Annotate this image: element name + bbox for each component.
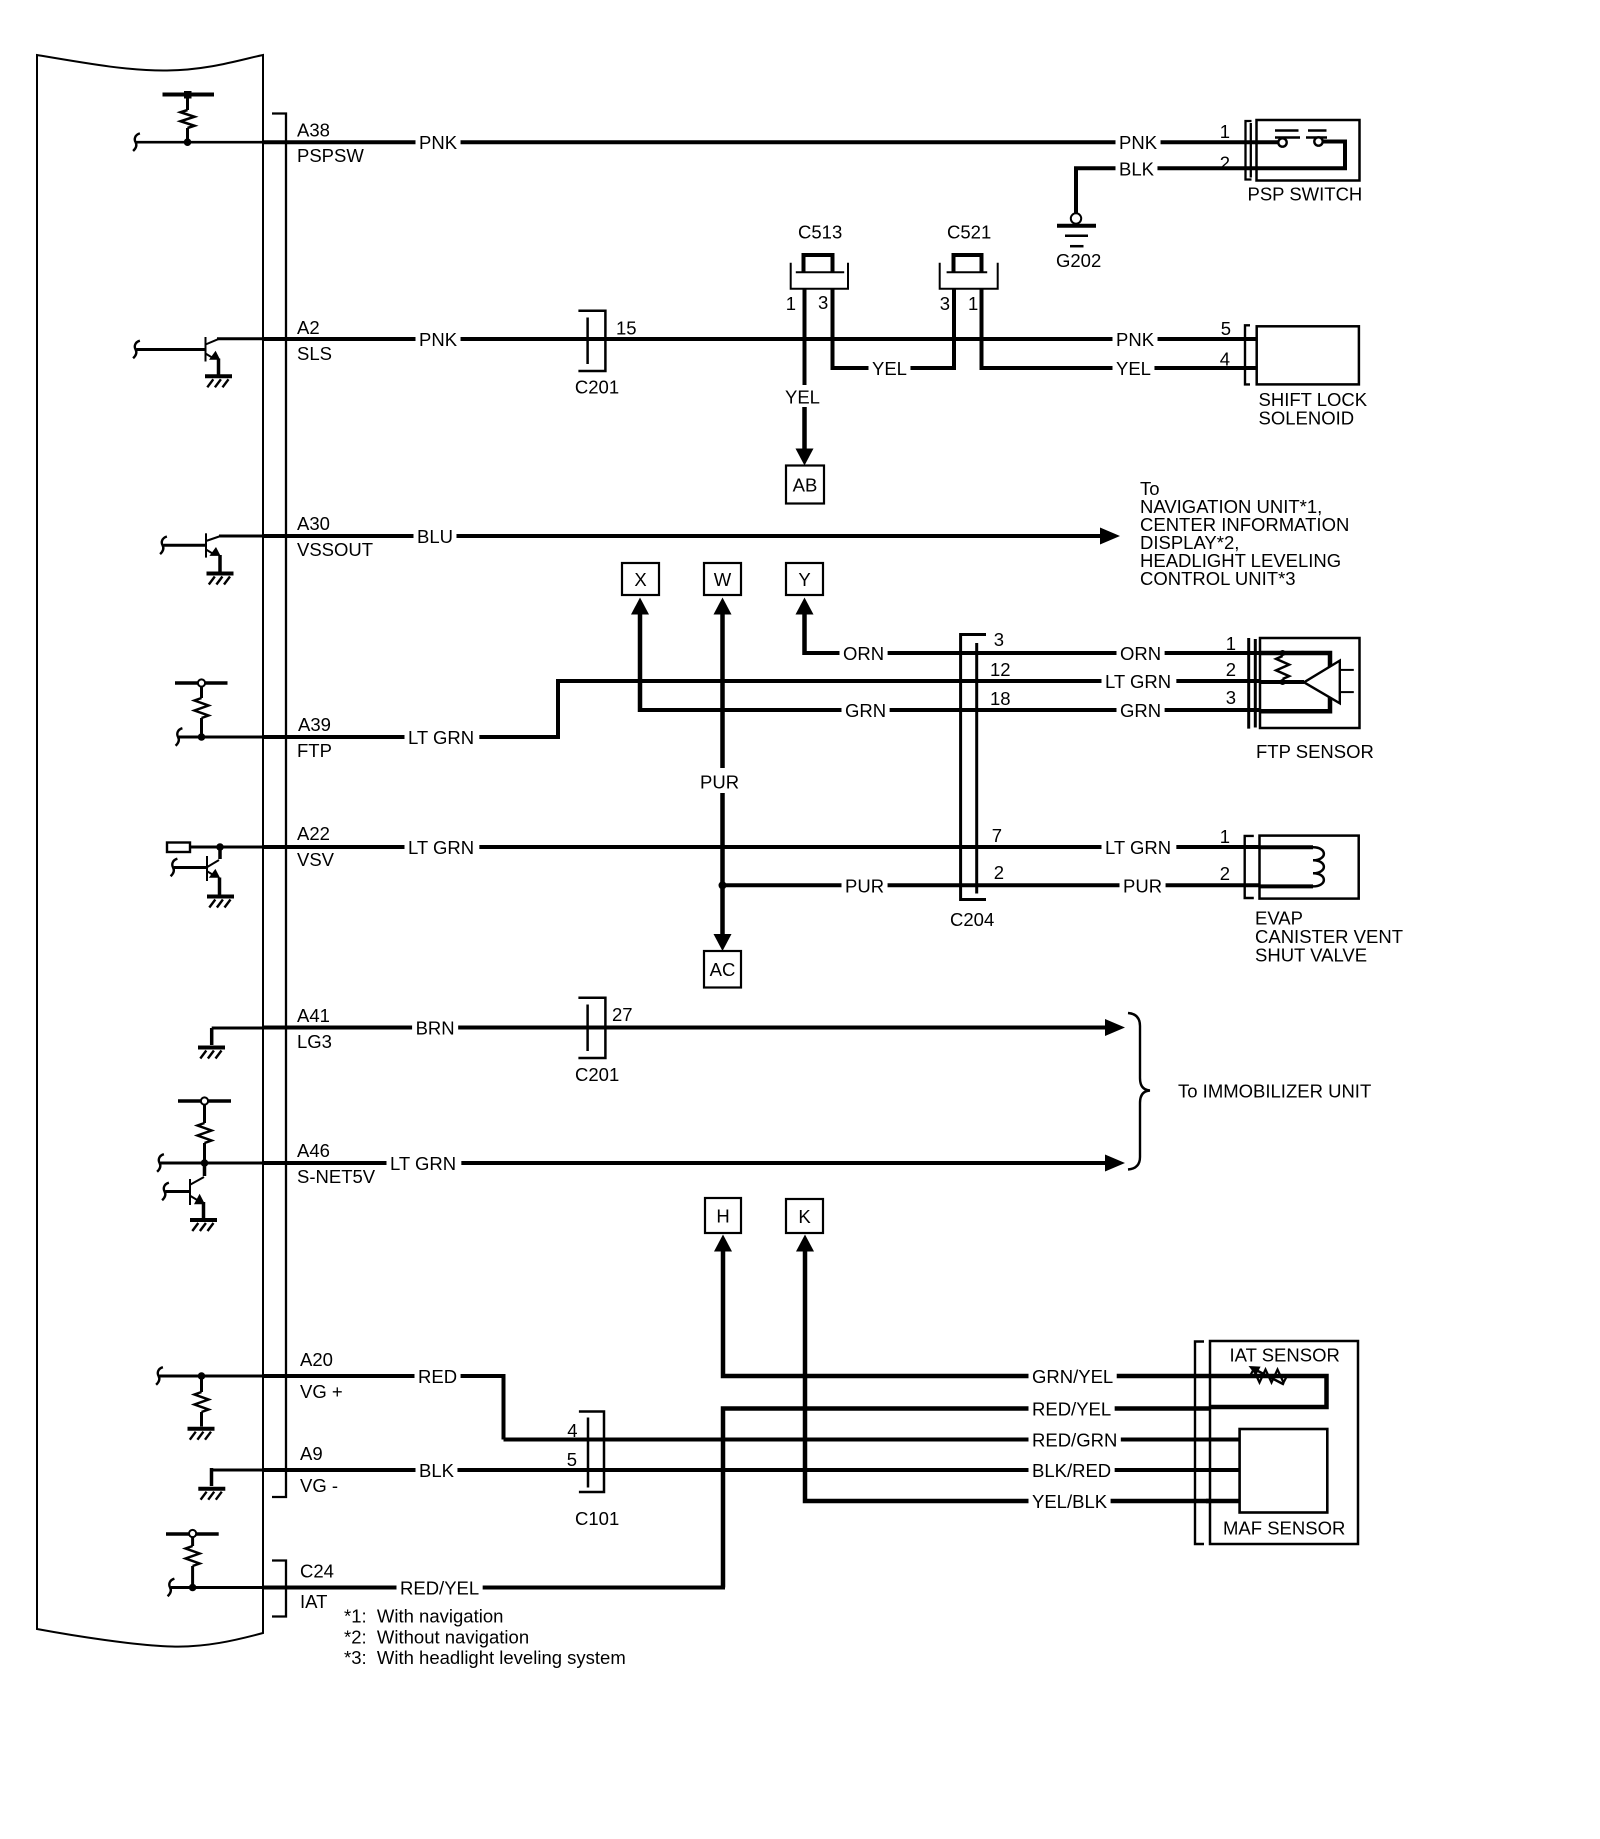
- svg-text:H: H: [716, 1206, 729, 1227]
- pressure switch symbol inside PSP switch: [1275, 129, 1299, 131]
- series element and transistor at A22 (inside ECM): [167, 843, 190, 853]
- connector C201 at A41 row: [578, 998, 605, 1058]
- wire label ORN (left): [840, 643, 888, 664]
- wire GRN X to FTP pin 3: [640, 708, 1260, 710]
- solenoid coil inside EVAP valve: [1260, 845, 1314, 849]
- SHIFT LOCK SOLENOID box: [1257, 326, 1359, 384]
- wire label BLK/RED: [1029, 1460, 1115, 1481]
- wire A41 BRN to immobilizer: [263, 1026, 1107, 1030]
- svg-text:BLK: BLK: [419, 1460, 455, 1481]
- wire C24 RED/YEL to H column: [263, 1586, 725, 1590]
- wire C521 pin3 stub: [952, 288, 956, 370]
- wire A39 inside ECM: [176, 728, 183, 746]
- MAF sensor inner box: [1240, 1429, 1328, 1513]
- svg-text:4: 4: [1220, 349, 1230, 370]
- svg-text:ORN: ORN: [843, 643, 884, 664]
- connector box X: [622, 563, 659, 595]
- svg-text:1: 1: [786, 293, 796, 314]
- svg-text:27: 27: [612, 1004, 633, 1025]
- ground G202: [1071, 213, 1081, 223]
- svg-text:Y: Y: [798, 569, 810, 590]
- svg-text:1: 1: [1220, 121, 1230, 142]
- svg-text:BLK/RED: BLK/RED: [1032, 1460, 1111, 1481]
- arrow into X: [631, 598, 649, 615]
- svg-text:A2: A2: [297, 317, 320, 338]
- svg-text:S-NET5V: S-NET5V: [297, 1166, 376, 1187]
- wire YEL C513 pin3 to C521 pin3: [833, 288, 955, 368]
- variable resistor (IAT thermistor): [1250, 1370, 1287, 1383]
- svg-text:FTP: FTP: [297, 740, 332, 761]
- svg-text:YEL: YEL: [872, 358, 907, 379]
- svg-text:*2: Without navigation: *2: Without navigation: [344, 1626, 529, 1647]
- wire YEL C521 pin1 to solenoid pin 4: [982, 288, 1257, 368]
- wire label BLK (PSP switch): [1116, 158, 1158, 179]
- svg-text:12: 12: [990, 659, 1011, 680]
- ground at A2 transistor: [205, 374, 232, 378]
- svg-text:AC: AC: [710, 959, 736, 980]
- wire A46 LT GRN to immobilizer: [263, 1161, 1107, 1165]
- connector box AB: [786, 466, 824, 504]
- wire GRN/YEL from H to IAT pin 1: [714, 1235, 732, 1252]
- connector box K: [786, 1199, 823, 1233]
- svg-text:1: 1: [1226, 633, 1236, 654]
- svg-text:K: K: [798, 1206, 811, 1227]
- PSP SWITCH box: [1257, 120, 1360, 181]
- wire BLK from PSP switch pin 2 to G202: [1076, 168, 1257, 213]
- wire label ORN (FTP pin 1): [1117, 643, 1165, 664]
- svg-text:G202: G202: [1056, 250, 1101, 271]
- ECM/PCM box outline (torn top and bottom): [37, 55, 263, 1647]
- svg-text:LG3: LG3: [297, 1031, 332, 1052]
- svg-text:A30: A30: [297, 513, 330, 534]
- svg-text:A39: A39: [298, 714, 331, 735]
- wire label YEL (solenoid pin 4): [1113, 358, 1155, 379]
- wire label BLK (A9): [416, 1460, 458, 1481]
- ground at A9 (inside ECM): [212, 1469, 265, 1472]
- junction dot A39: [198, 733, 206, 741]
- svg-text:BLK: BLK: [1119, 158, 1155, 179]
- wire label GRN (FTP pin 3): [1117, 700, 1165, 721]
- wire YEL/BLK from K to MAF pin 5: [796, 1235, 814, 1252]
- svg-text:VG +: VG +: [300, 1381, 343, 1402]
- junction dot C24: [189, 1584, 197, 1592]
- svg-text:A20: A20: [300, 1349, 333, 1370]
- svg-text:VG -: VG -: [300, 1475, 338, 1496]
- wire label GRN (left): [842, 700, 890, 721]
- connector C201 at A2 row: [578, 311, 605, 371]
- wire PUR vertical W to AC: [714, 598, 732, 615]
- svg-text:YEL: YEL: [785, 387, 820, 408]
- svg-text:A46: A46: [297, 1140, 330, 1161]
- wire A38 PNK to PSP switch: [263, 140, 1257, 144]
- svg-text:SLS: SLS: [297, 343, 332, 364]
- connector C513: [804, 255, 833, 272]
- svg-text:1: 1: [1220, 826, 1230, 847]
- svg-text:A9: A9: [300, 1443, 323, 1464]
- svg-text:PNK: PNK: [419, 132, 458, 153]
- svg-text:2: 2: [1220, 863, 1230, 884]
- wire A22 LT GRN to EVAP valve pin 1: [263, 845, 1260, 849]
- svg-text:C24: C24: [300, 1561, 334, 1582]
- IAT sensor element loop: [1210, 1376, 1327, 1407]
- junction dot PUR: [719, 881, 727, 889]
- svg-text:RED: RED: [418, 1366, 457, 1387]
- wire label RED/YEL (C24): [397, 1577, 483, 1598]
- svg-text:C101: C101: [575, 1508, 619, 1529]
- connector C204: [961, 635, 986, 900]
- ground bar A9: [198, 1487, 225, 1491]
- svg-text:AB: AB: [793, 475, 818, 496]
- wire label PUR (EVAP pin 2): [1120, 875, 1166, 896]
- svg-text:IAT: IAT: [300, 1591, 327, 1612]
- wire label LT GRN (A22): [405, 837, 480, 858]
- connector bracket at EVAP valve: [1245, 836, 1254, 898]
- connector C521: [954, 255, 982, 272]
- arrow into Y: [796, 598, 814, 615]
- wire A30 BLU to navigation units: [263, 534, 1102, 538]
- svg-text:VSV: VSV: [297, 849, 335, 870]
- svg-text:RED/YEL: RED/YEL: [400, 1578, 479, 1599]
- junction dot A38: [184, 138, 192, 146]
- svg-text:To IMMOBILIZER UNIT: To IMMOBILIZER UNIT: [1178, 1081, 1371, 1102]
- ground at A20 resistor: [188, 1427, 215, 1431]
- brace to immobilizer unit: [1128, 1013, 1150, 1170]
- thermistor resistor inside FTP sensor: [1280, 650, 1286, 656]
- svg-text:PUR: PUR: [845, 875, 884, 896]
- svg-text:3: 3: [1226, 687, 1236, 708]
- svg-text:A38: A38: [297, 120, 330, 141]
- svg-text:*1: With navigation: *1: With navigation: [344, 1606, 503, 1627]
- wire label RED/YEL (MAF pin 2): [1029, 1398, 1115, 1419]
- connector box AC: [704, 951, 741, 988]
- ECM connector bracket (pins A38-A9): [272, 114, 286, 1498]
- svg-text:PNK: PNK: [1119, 132, 1158, 153]
- wire C513 pin1 down to AB: [803, 288, 807, 385]
- wire label PNK (A2): [416, 329, 461, 350]
- svg-text:PSP SWITCH: PSP SWITCH: [1248, 184, 1363, 205]
- wire A38 inside ECM: [133, 133, 140, 151]
- wire PUR to EVAP valve pin 2: [723, 883, 1260, 887]
- ECM connector bracket (pin C24): [272, 1561, 286, 1617]
- connector box H: [705, 1198, 741, 1233]
- svg-text:GRN: GRN: [1120, 700, 1161, 721]
- wire label PNK (A38 left): [416, 132, 461, 153]
- svg-text:BLU: BLU: [417, 526, 453, 547]
- svg-text:18: 18: [990, 688, 1011, 709]
- svg-text:MAF SENSOR: MAF SENSOR: [1223, 1518, 1345, 1539]
- wire label YEL (C513 pin1): [782, 386, 824, 407]
- svg-text:LT GRN: LT GRN: [390, 1153, 456, 1174]
- svg-text:RED/GRN: RED/GRN: [1032, 1430, 1117, 1451]
- svg-text:YEL/BLK: YEL/BLK: [1032, 1491, 1108, 1512]
- EVAP valve box: [1260, 836, 1359, 899]
- svg-text:LT GRN: LT GRN: [1105, 671, 1171, 692]
- wire stubs to MAF sensor pins 3-5: [1206, 1438, 1240, 1442]
- connector bracket at FTP sensor: [1247, 638, 1250, 729]
- svg-text:5: 5: [1221, 318, 1231, 339]
- svg-text:ORN: ORN: [1120, 643, 1161, 664]
- wire RED/GRN C101 pin 4 to MAF pin 3: [586, 1438, 1240, 1442]
- svg-text:2: 2: [1220, 153, 1230, 174]
- svg-text:PSPSW: PSPSW: [297, 145, 364, 166]
- wire label YEL (C513-C521): [869, 358, 911, 379]
- svg-text:RED/YEL: RED/YEL: [1032, 1399, 1111, 1420]
- internal loop FTP sensor: [1260, 653, 1330, 711]
- svg-text:PNK: PNK: [419, 329, 458, 350]
- wire label RED/GRN: [1029, 1429, 1121, 1450]
- svg-text:CONTROL UNIT*3: CONTROL UNIT*3: [1140, 568, 1296, 589]
- FTP SENSOR box: [1260, 638, 1360, 728]
- pull-up resistor at A39 (inside ECM): [175, 681, 228, 685]
- svg-text:7: 7: [992, 825, 1002, 846]
- wire label PNK (PSP switch): [1116, 132, 1161, 153]
- svg-text:X: X: [634, 569, 646, 590]
- wire RED/YEL C24 to H column and MAF pin 2: [723, 1409, 1210, 1588]
- connector bracket at PSP switch: [1246, 121, 1252, 180]
- wire label YEL/BLK: [1029, 1491, 1111, 1512]
- connector C101: [579, 1412, 604, 1493]
- wire label LT GRN (EVAP pin 1): [1102, 837, 1177, 858]
- svg-text:PNK: PNK: [1116, 329, 1155, 350]
- svg-text:3: 3: [940, 293, 950, 314]
- svg-text:LT GRN: LT GRN: [1105, 837, 1171, 858]
- svg-text:GRN: GRN: [845, 700, 886, 721]
- svg-text:YEL: YEL: [1116, 358, 1151, 379]
- svg-text:4: 4: [567, 1420, 577, 1441]
- svg-text:3: 3: [818, 292, 828, 313]
- svg-text:VSSOUT: VSSOUT: [297, 539, 373, 560]
- svg-text:2: 2: [1226, 659, 1236, 680]
- svg-text:LT GRN: LT GRN: [408, 837, 474, 858]
- svg-text:*3: With headlight leveling s: *3: With headlight leveling system: [344, 1647, 626, 1668]
- svg-text:BRN: BRN: [416, 1018, 455, 1039]
- connector bracket at shift lock solenoid: [1245, 325, 1250, 384]
- svg-text:3: 3: [994, 629, 1004, 650]
- connector box W: [704, 563, 741, 595]
- wire A2 PNK/SLS to shift lock solenoid: [263, 337, 1257, 341]
- ground bar A41: [198, 1046, 225, 1050]
- connector box Y: [786, 563, 823, 595]
- wire A20 RED to C101 pin 4: [263, 1374, 506, 1378]
- wire label BRN (A41): [412, 1017, 458, 1038]
- wire label LT GRN (FTP pin 2): [1102, 671, 1177, 692]
- svg-text:FTP SENSOR: FTP SENSOR: [1256, 741, 1374, 762]
- svg-text:1: 1: [968, 293, 978, 314]
- svg-text:W: W: [714, 569, 732, 590]
- arrow into AB: [802, 407, 807, 452]
- svg-text:PUR: PUR: [700, 772, 739, 793]
- wire label LT GRN (A46): [387, 1153, 462, 1174]
- ground at A41 (inside ECM): [212, 1027, 264, 1030]
- svg-text:SOLENOID: SOLENOID: [1259, 408, 1355, 429]
- transistor at A2 (inside ECM): [133, 341, 140, 359]
- wire label LT GRN (A39): [405, 727, 480, 748]
- svg-text:5: 5: [567, 1449, 577, 1470]
- connector bracket at IAT/MAF sensor: [1195, 1342, 1204, 1545]
- ground at A30 transistor: [207, 572, 234, 576]
- wire label RED (A20): [415, 1366, 461, 1387]
- transistor at A30 (inside ECM): [160, 537, 167, 555]
- pull-up resistor at A38 (inside ECM): [163, 93, 215, 97]
- svg-text:IAT SENSOR: IAT SENSOR: [1230, 1345, 1340, 1366]
- svg-text:C521: C521: [947, 222, 991, 243]
- svg-text:PUR: PUR: [1123, 875, 1162, 896]
- svg-text:SHUT VALVE: SHUT VALVE: [1255, 945, 1367, 966]
- pull-down resistor at A20 (inside ECM): [156, 1367, 163, 1385]
- wire A9 BLK through C101 pin 5 to MAF pin 4: [263, 1468, 1240, 1472]
- svg-text:LT GRN: LT GRN: [408, 727, 474, 748]
- svg-text:15: 15: [616, 318, 637, 339]
- ground at A22 transistor: [207, 895, 234, 899]
- wire ORN Y to FTP pin 1: [805, 651, 1261, 653]
- wire C24 inside ECM: [168, 1579, 175, 1597]
- svg-text:C201: C201: [575, 377, 619, 398]
- wire label PUR (left): [842, 875, 888, 896]
- wire label GRN/YEL: [1029, 1366, 1117, 1387]
- pull-up resistor and transistor at A46 (inside ECM): [178, 1099, 231, 1103]
- resistor at C24 (inside ECM): [166, 1532, 219, 1536]
- svg-text:C201: C201: [575, 1064, 619, 1085]
- svg-text:GRN/YEL: GRN/YEL: [1032, 1366, 1113, 1387]
- wire label BLU (A30): [414, 526, 457, 547]
- svg-text:A41: A41: [297, 1005, 330, 1026]
- ground at A46 transistor: [190, 1218, 217, 1222]
- svg-text:2: 2: [994, 862, 1004, 883]
- amplifier triangle inside FTP sensor: [1304, 661, 1340, 704]
- svg-text:A22: A22: [297, 823, 330, 844]
- wire A39 LT GRN to C204 pin 12: [263, 735, 556, 739]
- wire label PNK (solenoid pin 5): [1113, 329, 1158, 350]
- svg-text:C204: C204: [950, 909, 994, 930]
- IAT/MAF sensor box: [1210, 1341, 1358, 1544]
- svg-text:C513: C513: [798, 222, 842, 243]
